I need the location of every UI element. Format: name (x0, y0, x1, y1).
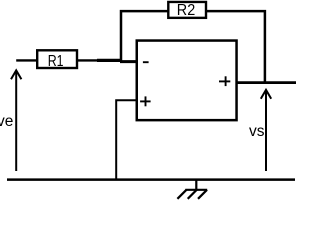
svg-text:R2: R2 (177, 2, 195, 19)
source arrow vs (261, 90, 271, 171)
svg-text:ve: ve (0, 113, 13, 130)
wire R1 to inverting input (77, 59, 98, 61)
resistor R1 (37, 50, 77, 70)
pin + output label (219, 76, 230, 86)
ground (177, 180, 207, 199)
wire ground rail (7, 178, 295, 181)
wire output (236, 81, 296, 84)
wire junction to op-amp inverting pin (120, 60, 137, 63)
svg-text:R1: R1 (48, 53, 64, 70)
wire input stub (16, 59, 37, 61)
svg-text:vs: vs (249, 123, 265, 140)
wire feedback node up to R2 (121, 11, 169, 62)
wire R2 to output corner (206, 11, 265, 83)
op-amp U1 (137, 41, 237, 121)
pin - inverting input label (143, 61, 149, 63)
wire node to op-amp (97, 59, 122, 62)
pin + non-inverting input label (140, 96, 151, 106)
wire non-inverting input to ground (116, 100, 137, 179)
resistor R2 (168, 2, 206, 19)
source arrow ve (11, 70, 21, 171)
